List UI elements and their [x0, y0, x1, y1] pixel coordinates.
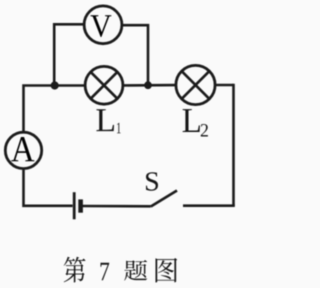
wire: lamp L2 to right rail — [216, 84, 233, 87]
label L2 — [183, 109, 208, 136]
battery B1 cell — [74, 192, 80, 219]
wire: node at left rail to lamp L1 — [24, 86, 85, 132]
label S — [146, 172, 158, 190]
wire: voltmeter left lead — [54, 24, 84, 85]
wire: lamp L1 to lamp L2 — [124, 84, 175, 87]
switch S blade — [151, 191, 177, 207]
caption: 第 7 题图 — [64, 257, 178, 283]
voltmeter U1 V — [84, 6, 122, 44]
junction: voltmeter right tap node — [144, 81, 152, 89]
wire: battery to switch — [82, 205, 151, 208]
wire: right rail — [232, 84, 235, 206]
wire: voltmeter right lead — [123, 25, 149, 85]
wire: ammeter to battery — [24, 170, 73, 206]
junction: voltmeter left tap node — [51, 81, 59, 89]
ammeter U2 A — [5, 132, 41, 168]
wire: switch to right rail — [183, 204, 235, 207]
lamp L1 — [85, 66, 123, 104]
label L1 — [96, 109, 120, 133]
lamp L2 — [176, 65, 215, 104]
